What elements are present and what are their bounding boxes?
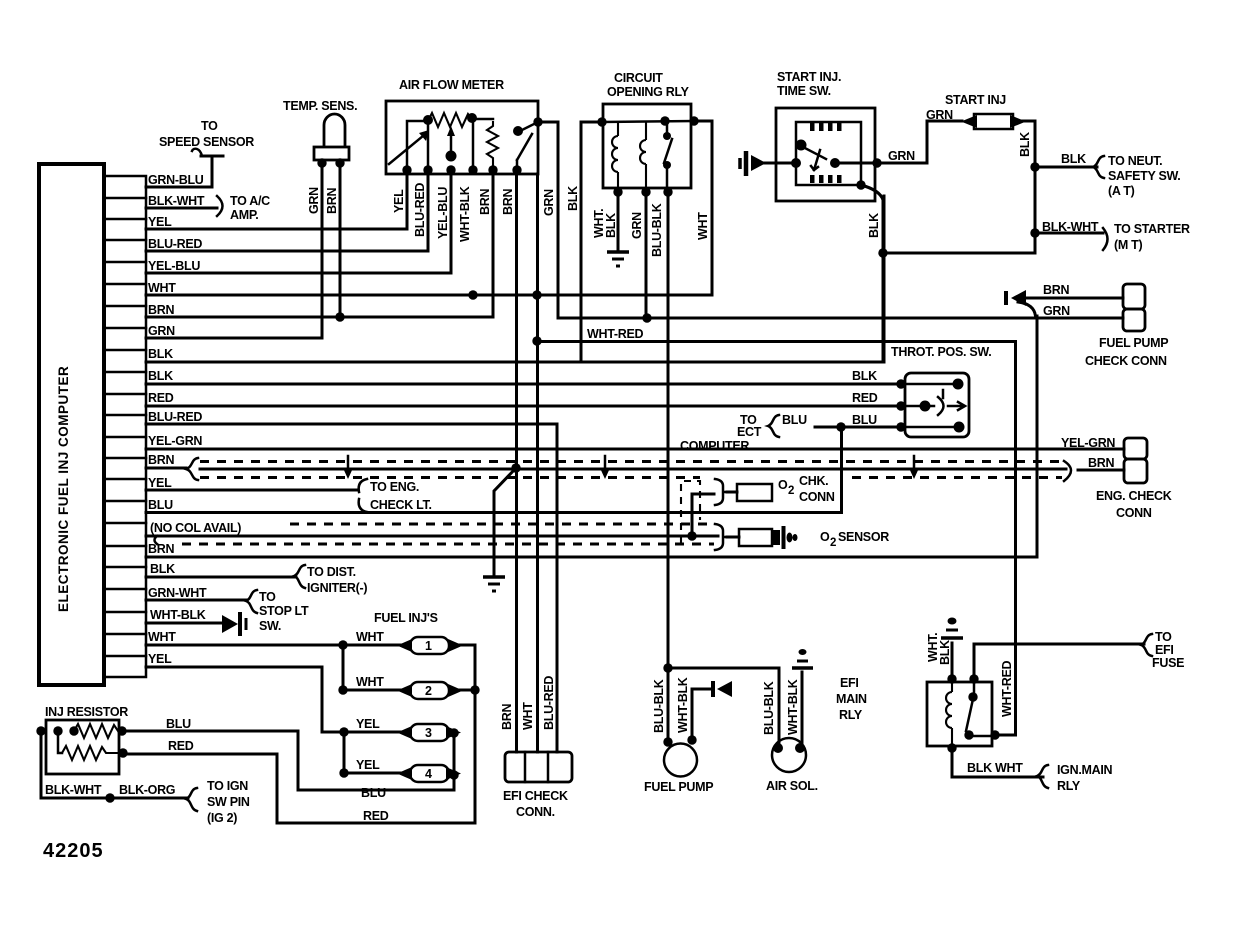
fuel pump M1 xyxy=(644,677,713,794)
relay K1 switch xyxy=(664,121,672,192)
svg-text:YEL-GRN: YEL-GRN xyxy=(1061,436,1115,450)
node start inj branches xyxy=(1030,162,1039,171)
ground G7 EFI main relay xyxy=(941,618,963,639)
shield pass-through arrow A3 xyxy=(909,456,919,479)
wire injectors 3-4 right to BLU return xyxy=(123,731,457,790)
svg-text:BLK-WHT: BLK-WHT xyxy=(148,194,205,208)
svg-text:BLK: BLK xyxy=(938,640,952,665)
O2 sensor connector P2 xyxy=(715,524,889,550)
wire YEL-GRN pin13 to engine check connector xyxy=(146,434,1124,449)
svg-text:YEL-GRN: YEL-GRN xyxy=(148,434,202,448)
node inj resistor pins xyxy=(36,726,45,735)
shield dashed lines around BRN wire xyxy=(200,462,1064,478)
svg-text:4: 4 xyxy=(425,767,432,781)
svg-text:IGNITER(-): IGNITER(-) xyxy=(307,581,367,595)
svg-text:BLK: BLK xyxy=(148,369,173,383)
svg-text:CIRCUIT: CIRCUIT xyxy=(614,71,663,85)
svg-text:INJ RESISTOR: INJ RESISTOR xyxy=(45,705,128,719)
fuel injector 2 xyxy=(356,675,463,699)
svg-text:OPENING RLY: OPENING RLY xyxy=(607,85,690,99)
svg-text:WHT-BLK: WHT-BLK xyxy=(676,677,690,733)
ground G6 air solenoid xyxy=(792,649,813,668)
svg-text:WHT: WHT xyxy=(356,675,384,689)
wire BRN AFM to EFI check conn (shielded junction) xyxy=(500,174,517,752)
wire WHT-RED computer branch to EFI main relay xyxy=(537,327,1016,735)
svg-text:TO: TO xyxy=(201,119,218,133)
EFI main relay K2 xyxy=(836,676,992,746)
svg-text:2: 2 xyxy=(788,485,794,497)
svg-text:YEL: YEL xyxy=(356,717,380,731)
svg-text:O: O xyxy=(820,530,830,544)
wire GRN pin8 to temp sensor xyxy=(146,163,322,338)
svg-text:TIME SW.: TIME SW. xyxy=(777,84,831,98)
node AFM resistor right xyxy=(467,113,477,123)
wire injectors 1-2 right to RED return xyxy=(123,645,475,823)
wire YEL pin15 to engine check light xyxy=(146,476,432,512)
svg-text:EFI CHECK: EFI CHECK xyxy=(503,789,568,803)
wire AFM to circuit GRN node xyxy=(538,121,558,124)
svg-text:WHT: WHT xyxy=(356,630,384,644)
wire BLK pin9 xyxy=(146,196,884,362)
ground G3 fuel pump check BRN xyxy=(1006,290,1026,306)
svg-text:BLK: BLK xyxy=(566,186,580,211)
relay K1 coil 2 xyxy=(640,121,646,192)
wire RED pin11 to throttle position switch xyxy=(146,391,901,406)
start injector time switch SW1 xyxy=(776,70,875,201)
svg-text:BRN: BRN xyxy=(148,542,174,556)
pin connector column of U1 xyxy=(104,176,146,677)
svg-text:SENSOR: SENSOR xyxy=(838,530,889,544)
wire BRN temp sensor lead xyxy=(325,160,340,317)
svg-text:GRN-WHT: GRN-WHT xyxy=(148,586,207,600)
wire GRN temp sensor lead xyxy=(307,160,322,338)
node O2 line tap xyxy=(687,531,696,540)
svg-text:GRN: GRN xyxy=(307,187,321,214)
wire BLK-WHT to starter xyxy=(1035,220,1190,252)
svg-text:BLU: BLU xyxy=(148,498,173,512)
svg-text:FUEL PUMP: FUEL PUMP xyxy=(1099,336,1168,350)
svg-text:BLU-BLK: BLU-BLK xyxy=(652,679,666,733)
svg-text:MAIN: MAIN xyxy=(836,692,867,706)
svg-text:RED: RED xyxy=(148,391,174,405)
node WHT row taps xyxy=(468,290,477,299)
svg-text:SW PIN: SW PIN xyxy=(207,795,250,809)
ground G5 fuel pump xyxy=(713,681,732,697)
svg-text:THROT. POS. SW.: THROT. POS. SW. xyxy=(891,345,991,359)
time switch heater teeth top xyxy=(810,123,842,131)
node AFM switch contact xyxy=(513,126,523,136)
wire BLU-RED pin4 to air flow meter xyxy=(146,174,428,251)
svg-text:BRN: BRN xyxy=(1088,456,1114,470)
fuel pump check connector J1 xyxy=(1085,284,1168,368)
svg-text:ELECTRONIC FUEL INJ COMPUTER: ELECTRONIC FUEL INJ COMPUTER xyxy=(56,366,71,612)
wire WHT-BLK relay K1 to ground xyxy=(592,192,618,250)
start inj resistor F1 xyxy=(945,93,1035,129)
node throttle switch pins xyxy=(896,379,905,388)
wire WHT-BLK air sol to ground xyxy=(801,672,804,748)
svg-text:BRN: BRN xyxy=(148,453,174,467)
svg-text:BLK: BLK xyxy=(150,562,175,576)
svg-text:(IG 2): (IG 2) xyxy=(207,811,237,825)
svg-text:EFI: EFI xyxy=(840,676,859,690)
svg-text:BLU: BLU xyxy=(166,717,191,731)
svg-text:BRN: BRN xyxy=(500,704,514,730)
svg-text:BLK WHT: BLK WHT xyxy=(967,761,1023,775)
svg-text:WHT: WHT xyxy=(148,630,176,644)
svg-text:GRN: GRN xyxy=(542,189,556,216)
wire BLK pin10 to throttle position switch xyxy=(146,369,901,384)
node BLU ECT tap xyxy=(836,422,845,431)
svg-text:BLU-RED: BLU-RED xyxy=(148,237,202,251)
svg-text:AMP.: AMP. xyxy=(230,208,258,222)
wire WHT AFM to EFI check conn xyxy=(521,174,538,752)
svg-text:BLU-RED: BLU-RED xyxy=(413,183,427,237)
wire WHT-BLK relay K2 to ground xyxy=(926,633,952,679)
svg-text:CONN: CONN xyxy=(1116,506,1152,520)
svg-text:BLU-RED: BLU-RED xyxy=(542,676,556,730)
wire GRN-BLU pin1 to speed sensor xyxy=(146,157,212,187)
svg-text:(NO COL AVAIL): (NO COL AVAIL) xyxy=(150,521,241,535)
air flow meter AFM box xyxy=(386,78,538,174)
air solenoid L1 xyxy=(762,679,818,793)
wire BLU-BLK relay K1 to fuel pump xyxy=(650,192,668,742)
svg-text:WHT-BLK: WHT-BLK xyxy=(150,608,206,622)
svg-text:TO STARTER: TO STARTER xyxy=(1114,222,1190,236)
svg-text:GRN: GRN xyxy=(1043,304,1070,318)
ground G4 shield drain xyxy=(483,577,505,591)
svg-text:START INJ: START INJ xyxy=(945,93,1006,107)
svg-text:GRN-BLU: GRN-BLU xyxy=(148,173,204,187)
svg-text:TO: TO xyxy=(259,590,276,604)
svg-text:GRN: GRN xyxy=(630,212,644,239)
svg-text:YEL-BLU: YEL-BLU xyxy=(148,259,200,273)
O2 check connector dashed shield box xyxy=(681,481,700,543)
svg-text:BRN: BRN xyxy=(478,189,492,215)
svg-text:CHK.: CHK. xyxy=(799,474,828,488)
svg-text:ENG. CHECK: ENG. CHECK xyxy=(1096,489,1172,503)
ground G1 circuit opening relay xyxy=(607,252,629,266)
wire YEL pin3 to air flow meter xyxy=(146,174,407,229)
node shield drain junction xyxy=(511,463,520,472)
node GRN line tap xyxy=(642,313,651,322)
svg-text:WHT-RED: WHT-RED xyxy=(1000,661,1014,717)
node AFM right out xyxy=(533,117,542,126)
wire YEL pin23 to fuel injectors 3-4 xyxy=(146,652,400,773)
svg-text:(M T): (M T) xyxy=(1114,238,1142,252)
svg-text:RLY: RLY xyxy=(839,708,863,722)
svg-text:TO NEUT.: TO NEUT. xyxy=(1108,154,1162,168)
ground G2 time switch xyxy=(740,151,796,176)
svg-text:RLY: RLY xyxy=(1057,779,1081,793)
svg-text:TO ENG.: TO ENG. xyxy=(370,480,419,494)
svg-text:TO IGN: TO IGN xyxy=(207,779,248,793)
svg-text:AIR FLOW METER: AIR FLOW METER xyxy=(399,78,504,92)
fuel injector 1 xyxy=(356,630,463,654)
svg-text:WHT-RED: WHT-RED xyxy=(587,327,643,341)
svg-text:BLK: BLK xyxy=(148,347,173,361)
svg-text:WHT-BLK: WHT-BLK xyxy=(458,186,472,242)
wire YEL-BLU pin5 to air flow meter xyxy=(146,174,451,273)
svg-text:BLU-RED: BLU-RED xyxy=(148,410,202,424)
node time switch pins xyxy=(872,158,881,167)
svg-text:WHT: WHT xyxy=(696,212,710,240)
svg-text:BLK: BLK xyxy=(1061,152,1086,166)
AFM potentiometer arrow xyxy=(389,130,429,164)
svg-text:BLK-WHT: BLK-WHT xyxy=(1042,220,1099,234)
svg-text:2: 2 xyxy=(830,537,836,549)
AFM lead labels xyxy=(392,183,492,242)
svg-text:BLU: BLU xyxy=(852,413,877,427)
svg-text:YEL-BLU: YEL-BLU xyxy=(436,187,450,239)
svg-text:FUEL PUMP: FUEL PUMP xyxy=(644,780,713,794)
svg-text:YEL: YEL xyxy=(148,476,172,490)
svg-text:1: 1 xyxy=(425,639,432,653)
wire BLK WHT relay K2 to ignition main relay xyxy=(952,748,1113,793)
node injector taps xyxy=(338,640,347,649)
fuel injector 4 xyxy=(356,758,461,782)
fuel injector 3 xyxy=(356,717,461,741)
svg-text:EFI: EFI xyxy=(1155,643,1174,657)
svg-text:SPEED SENSOR: SPEED SENSOR xyxy=(159,135,254,149)
wire junction fuel pump branch xyxy=(668,668,779,748)
wire BLK pin19 to distributor igniter xyxy=(146,562,367,595)
wire BLK time switch to BLK row xyxy=(861,185,883,362)
node relay K1 pins xyxy=(597,117,606,126)
svg-text:GRN: GRN xyxy=(926,108,953,122)
wire BLU pin16 to ECT line xyxy=(146,427,842,513)
wire GRN relay K1 to GRN line xyxy=(630,192,646,318)
svg-text:CHECK LT.: CHECK LT. xyxy=(370,498,432,512)
shield drain wire to ground xyxy=(494,468,516,574)
wire injector 4 right stub xyxy=(454,774,457,777)
svg-text:RED: RED xyxy=(363,809,389,823)
svg-text:BLU: BLU xyxy=(361,786,386,800)
svg-text:CONN.: CONN. xyxy=(516,805,555,819)
node fuel pump pins xyxy=(663,737,672,746)
shield pass-through arrow A1 xyxy=(343,456,353,479)
svg-text:GRN: GRN xyxy=(148,324,175,338)
wire BLK to neutral safety switch xyxy=(1035,152,1180,198)
shield brace at BRN pin14 xyxy=(186,458,198,480)
svg-text:(A T): (A T) xyxy=(1108,184,1135,198)
EFI check connector J3 xyxy=(503,752,572,819)
wire WHT-BLK pin21 to stop lt sw connector xyxy=(146,608,222,623)
wire WHT pin6 to circuit opening relay xyxy=(146,121,712,295)
shield bracket at engine check conn xyxy=(1064,461,1071,481)
wire BLK-WHT pin2 to A/C amp xyxy=(146,194,270,222)
svg-text:TO DIST.: TO DIST. xyxy=(307,565,356,579)
temp sensor TS1 xyxy=(283,99,357,160)
svg-text:BRN: BRN xyxy=(325,188,339,214)
node temp sens pins xyxy=(317,158,326,167)
svg-text:FUSE: FUSE xyxy=(1152,656,1184,670)
svg-text:3: 3 xyxy=(425,726,432,740)
speed sensor connector symbol xyxy=(159,119,254,156)
node BRN row junction xyxy=(335,312,344,321)
wire BRN pin14 shielded to engine check connector xyxy=(146,453,1124,470)
node air sol pins xyxy=(773,743,783,753)
svg-text:BLK: BLK xyxy=(852,369,877,383)
node AFM bottom pins xyxy=(402,165,411,174)
wire BRN pin7 to air flow meter xyxy=(146,174,493,317)
svg-text:COMPUTER: COMPUTER xyxy=(680,439,749,453)
svg-text:BLK-ORG: BLK-ORG xyxy=(119,783,175,797)
inj resistor R1 xyxy=(45,705,194,774)
svg-text:BLU-BLK: BLU-BLK xyxy=(762,681,776,735)
wire BRN pin18 to fuel pump check connector ground xyxy=(146,316,1037,557)
svg-text:BLK: BLK xyxy=(867,213,881,238)
svg-text:SAFETY SW.: SAFETY SW. xyxy=(1108,169,1180,183)
node WHT-RED tap xyxy=(532,336,541,345)
wire WHT-BLK fuel pump to ground xyxy=(692,689,712,740)
svg-text:STOP LT: STOP LT xyxy=(259,604,309,618)
throttle switch internals xyxy=(901,384,965,427)
throttle position switch SW2 xyxy=(852,345,991,437)
wire GRN air flow meter to fuel pump check conn xyxy=(542,122,1123,318)
svg-text:SW.: SW. xyxy=(259,619,281,633)
stop light switch connector terminator xyxy=(222,612,246,636)
svg-text:BLU: BLU xyxy=(782,413,807,427)
svg-text:TO A/C: TO A/C xyxy=(230,194,270,208)
svg-text:START INJ.: START INJ. xyxy=(777,70,841,84)
svg-text:2: 2 xyxy=(425,684,432,698)
relay K1 coil 1 xyxy=(612,122,618,192)
svg-text:YEL: YEL xyxy=(148,215,172,229)
svg-text:BLK: BLK xyxy=(1018,132,1032,157)
wire BLU-RED pin12 to EFI check connector xyxy=(146,410,557,752)
computer box U1 ELECTRONIC FUEL INJ COMPUTER xyxy=(39,164,104,685)
svg-text:YEL: YEL xyxy=(356,758,380,772)
node relay K2 pins xyxy=(947,674,956,683)
svg-text:BRN: BRN xyxy=(1043,283,1069,297)
svg-text:O: O xyxy=(778,478,788,492)
svg-text:RED: RED xyxy=(168,739,194,753)
engine check connector J2 xyxy=(1061,436,1172,520)
node AFM wiper xyxy=(446,151,457,162)
svg-text:BLU-BLK: BLU-BLK xyxy=(650,203,664,257)
relay K2 switch xyxy=(966,679,995,736)
svg-text:AIR SOL.: AIR SOL. xyxy=(766,779,818,793)
svg-text:RED: RED xyxy=(852,391,878,405)
node BLK starter junction xyxy=(878,248,887,257)
wire pin17 (NO COL AVAIL) to O2 sensor xyxy=(146,521,718,536)
wire BLK to circuit opening relay xyxy=(566,122,602,362)
svg-text:TO: TO xyxy=(1155,630,1172,644)
svg-text:BRN: BRN xyxy=(148,303,174,317)
svg-text:GRN: GRN xyxy=(888,149,915,163)
O2 check connector shield dashes xyxy=(155,524,715,544)
svg-text:BRN: BRN xyxy=(501,189,515,215)
wire WHT pin22 to fuel injectors 1-2 xyxy=(146,630,400,690)
AFM switch xyxy=(517,123,536,170)
wire BLK-WHT BLK-ORG to ignition switch xyxy=(41,731,250,825)
time switch heater teeth bottom xyxy=(810,175,842,183)
svg-text:WHT: WHT xyxy=(148,281,176,295)
node AFM resistor left xyxy=(423,115,433,125)
time switch contacts and arm xyxy=(801,146,877,170)
circuit opening relay K1 xyxy=(603,71,691,188)
svg-text:BLK-WHT: BLK-WHT xyxy=(45,783,102,797)
svg-text:WHT: WHT xyxy=(521,702,535,730)
wire injector 2 right stub xyxy=(459,689,475,692)
wire BLU to ECT computer xyxy=(680,413,901,453)
AFM internal columns xyxy=(428,119,473,170)
relay K2 coil xyxy=(946,682,952,746)
svg-text:YEL: YEL xyxy=(148,652,172,666)
AFM wiper arrow xyxy=(447,126,455,156)
relay K1 internal top wire xyxy=(602,121,694,122)
O2 check connector P1 xyxy=(692,474,835,536)
wire GRN-WHT pin20 to stop light switch xyxy=(146,586,309,633)
AFM vertical resistor xyxy=(487,121,498,170)
svg-text:BLK: BLK xyxy=(604,213,618,238)
wire GRN time switch to start inj fuse xyxy=(877,108,962,163)
wire to EFI fuse xyxy=(974,630,1184,679)
svg-text:FUEL INJ'S: FUEL INJ'S xyxy=(374,611,438,625)
svg-text:ECT: ECT xyxy=(737,425,762,439)
svg-text:IGN.MAIN: IGN.MAIN xyxy=(1057,763,1113,777)
node BLK-ORG splice xyxy=(105,793,114,802)
svg-text:CONN: CONN xyxy=(799,490,835,504)
svg-text:TEMP. SENS.: TEMP. SENS. xyxy=(283,99,357,113)
svg-text:CHECK CONN: CHECK CONN xyxy=(1085,354,1167,368)
shield pass-through arrow A2 xyxy=(600,456,610,479)
wire BRN ground to fuel pump check conn xyxy=(1018,283,1123,316)
wire BLK start inj down to starter branches xyxy=(883,121,1035,253)
AFM inner frame and resistor xyxy=(407,113,493,170)
svg-text:WHT-BLK: WHT-BLK xyxy=(786,679,800,735)
svg-text:YEL: YEL xyxy=(392,189,406,213)
node fuel pump branch xyxy=(663,663,672,672)
svg-text:42205: 42205 xyxy=(43,840,104,862)
